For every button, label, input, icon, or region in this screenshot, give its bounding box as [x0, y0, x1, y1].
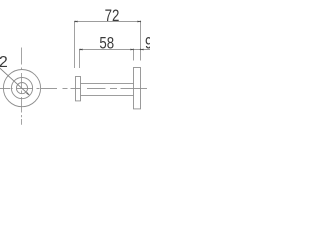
middle circle (flange disc, front view) — [11, 78, 32, 99]
dimension line 58 — [80, 49, 134, 51]
side view: rod top edge — [81, 83, 134, 85]
svg-text:2: 2 — [0, 54, 8, 71]
extension line (58/9 dim, plate left face) — [133, 50, 135, 61]
outer circle (wall plate, front view) — [3, 70, 40, 107]
dimension line 9 (runs past plate to right edge) — [134, 49, 151, 51]
horizontal centerline (axis through both views) — [0, 88, 147, 90]
58 left arrowhead — [79, 49, 82, 51]
extension line right (72/9 dim, plate right face) — [140, 22, 142, 61]
side view: wall plate — [134, 68, 141, 109]
side view: small flange disc — [76, 77, 81, 101]
inner circle (rod, front view) — [16, 83, 27, 94]
extension line (58 dim left) — [79, 50, 81, 69]
72 left arrowhead — [74, 21, 77, 23]
dimension line 72 — [75, 21, 141, 23]
9 dim arrowhead — [140, 49, 143, 51]
svg-text:9: 9 — [145, 34, 150, 53]
diameter leader line — [0, 68, 29, 95]
leader arrowhead — [26, 92, 29, 95]
vertical centerline (front view) — [21, 48, 23, 125]
svg-text:72: 72 — [105, 6, 120, 25]
svg-text:58: 58 — [99, 34, 114, 53]
58 right arrowhead — [130, 49, 133, 51]
side view: rod bottom edge — [81, 95, 134, 97]
72 right arrowhead — [137, 21, 140, 23]
extension line left (72 dim) — [74, 22, 76, 69]
